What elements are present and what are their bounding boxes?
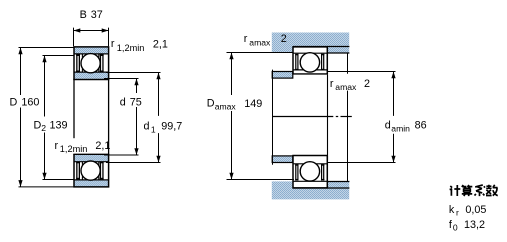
dimension D: arrows bbox=[18, 48, 22, 55]
svg-text:75: 75 bbox=[130, 97, 142, 109]
char shu bbox=[486, 185, 498, 196]
dimension B: extension lines bbox=[73, 28, 75, 47]
wire: right vertical side of bearing (between sections) bbox=[108, 79, 110, 154]
seal right lower bbox=[100, 162, 101, 180]
svg-text:amax: amax bbox=[215, 102, 237, 112]
dimension damin: arrows bbox=[391, 72, 395, 79]
char xi bbox=[475, 185, 485, 196]
char suan bbox=[462, 185, 473, 196]
svg-text:amin: amin bbox=[391, 124, 410, 134]
inner ring raceway line bbox=[74, 71, 109, 73]
ra shoulder vertical line bbox=[347, 53, 349, 74]
dimension d1: extension lines bbox=[106, 72, 161, 74]
label (Chinese) calculation factors bbox=[450, 185, 498, 196]
svg-text:d: d bbox=[144, 120, 150, 132]
svg-text:13,2: 13,2 bbox=[464, 219, 485, 231]
seal right bbox=[321, 54, 322, 70]
dimension D2: extension lines bbox=[43, 55, 75, 57]
svg-text:1,2min: 1,2min bbox=[60, 144, 88, 154]
bore edge line (section bottom) bbox=[73, 79, 109, 81]
inner ring upper (blue) bbox=[74, 72, 109, 79]
housing right tab bottom line top bbox=[327, 52, 349, 54]
svg-text:amax: amax bbox=[249, 37, 271, 47]
svg-text:d: d bbox=[120, 97, 126, 109]
housing bore line top bbox=[293, 46, 349, 48]
svg-text:37: 37 bbox=[91, 9, 103, 21]
svg-text:160: 160 bbox=[21, 96, 39, 108]
dimension D2: line bbox=[44, 56, 46, 117]
svg-text:86: 86 bbox=[415, 119, 427, 131]
outer ring lower (blue) bbox=[74, 180, 109, 187]
char ji bbox=[450, 185, 461, 196]
svg-text:D: D bbox=[207, 97, 215, 109]
svg-text:amax: amax bbox=[335, 82, 357, 92]
inner ring lower (blue) bbox=[74, 155, 109, 162]
svg-text:B: B bbox=[80, 9, 87, 21]
raceway shoulder ticks lower bbox=[81, 176, 83, 180]
svg-text:r: r bbox=[55, 140, 59, 152]
inner raceway line lower bbox=[293, 163, 327, 165]
ball bbox=[300, 53, 319, 72]
svg-text:2: 2 bbox=[281, 33, 287, 45]
svg-text:D: D bbox=[34, 119, 42, 131]
centerline (dash-dot) bbox=[272, 116, 333, 118]
section outline lower bbox=[293, 156, 327, 188]
bearing lower section (right drawing) bbox=[292, 156, 328, 188]
svg-text:k: k bbox=[449, 204, 455, 216]
bearing upper section bbox=[73, 47, 109, 80]
svg-text:r: r bbox=[111, 38, 115, 50]
svg-text:r: r bbox=[330, 78, 334, 90]
housing bore line bottom bbox=[293, 187, 349, 189]
outer raceway line lower bbox=[74, 179, 109, 181]
svg-text:2,1: 2,1 bbox=[95, 140, 110, 152]
shaft shoulder strip bottom bbox=[272, 156, 293, 163]
inner raceway line bbox=[293, 69, 327, 71]
ball lower bbox=[300, 162, 319, 181]
section outline bbox=[74, 47, 109, 80]
dimension Damax: line bbox=[231, 53, 233, 96]
dimension B: arrows bbox=[74, 28, 81, 32]
raceway shoulder ticks bbox=[81, 54, 83, 58]
dimension d1: line bbox=[158, 73, 160, 116]
dimension d: line bbox=[136, 79, 138, 94]
seal left bbox=[295, 54, 296, 70]
svg-text:d: d bbox=[385, 119, 391, 131]
dimension d: arrows bbox=[134, 79, 138, 86]
svg-text:r: r bbox=[244, 33, 248, 45]
dimension damin: extension lines bbox=[328, 71, 396, 73]
wire: bearing right side between sections bbox=[327, 75, 329, 160]
section outline lower bbox=[74, 154, 109, 187]
seal right lower bbox=[321, 164, 322, 180]
svg-text:0: 0 bbox=[453, 222, 458, 232]
bore edge line lower bbox=[73, 153, 109, 155]
outer raceway line lower bbox=[293, 180, 327, 182]
seal right bbox=[100, 54, 101, 72]
svg-text:r: r bbox=[456, 207, 459, 217]
housing top (blue) bbox=[272, 33, 349, 53]
svg-text:0,05: 0,05 bbox=[465, 204, 486, 216]
seal left bbox=[76, 54, 77, 72]
bearing lower section (mirror) bbox=[73, 154, 109, 187]
svg-text:2: 2 bbox=[364, 78, 370, 90]
svg-text:139: 139 bbox=[50, 119, 68, 131]
svg-text:2: 2 bbox=[41, 123, 46, 133]
bore line bbox=[292, 73, 328, 75]
dimension Damax: extension lines bbox=[227, 52, 294, 54]
bore line lower bbox=[292, 155, 328, 157]
ball bbox=[81, 54, 100, 73]
svg-text:1,2min: 1,2min bbox=[117, 43, 145, 53]
svg-text:2,1: 2,1 bbox=[153, 39, 168, 51]
seal left lower bbox=[295, 164, 296, 180]
dimension D: extension lines bbox=[19, 47, 75, 49]
seal left lower bbox=[76, 162, 77, 180]
dimension d1: arrows bbox=[156, 73, 160, 80]
outer raceway line bbox=[293, 52, 327, 54]
section outline bbox=[293, 47, 327, 74]
dimension D: line bbox=[20, 48, 22, 96]
bearing upper section (right drawing) bbox=[292, 47, 328, 74]
dimension B: line bbox=[74, 30, 109, 32]
dimension damin: line bbox=[393, 72, 395, 116]
outer ring raceway line bbox=[74, 53, 109, 55]
housing right tab top line bottom bbox=[327, 181, 349, 183]
ball lower bbox=[81, 161, 100, 180]
svg-text:99,7: 99,7 bbox=[161, 120, 182, 132]
dimension d: extension lines bbox=[104, 78, 139, 80]
shaft left edge line bbox=[272, 70, 274, 165]
housing bottom (blue) bbox=[272, 181, 349, 199]
svg-text:149: 149 bbox=[244, 98, 262, 110]
svg-text:1: 1 bbox=[151, 124, 156, 134]
svg-text:D: D bbox=[10, 96, 18, 108]
wire: left vertical side of bearing (between sections) bbox=[73, 79, 75, 138]
dimension D2: arrows bbox=[42, 56, 46, 63]
dimension Damax: arrows bbox=[229, 53, 233, 60]
shaft shoulder strip top bbox=[272, 72, 293, 79]
outer ring upper (blue) bbox=[74, 47, 109, 54]
inner raceway line lower bbox=[74, 161, 109, 163]
